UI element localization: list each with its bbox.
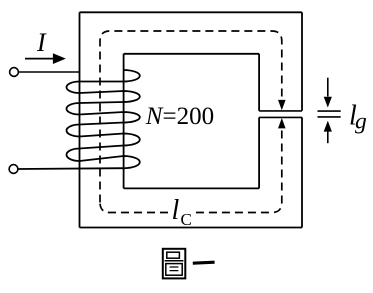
svg-text:g: g	[355, 109, 367, 135]
flux arrow into gap (down)	[278, 100, 286, 110]
bottom terminal	[9, 165, 18, 174]
svg-text:N=200: N=200	[145, 103, 214, 130]
svg-text:C: C	[181, 210, 192, 229]
coil N=200 winding	[18, 70, 140, 169]
top lead wire	[19, 71, 80, 73]
flux arrow into gap (up)	[278, 118, 286, 128]
gap dimension tick marks	[318, 111, 341, 117]
caption 圖一 (drawn)	[163, 249, 215, 279]
current direction arrow	[25, 53, 66, 64]
air gap cap lines	[259, 111, 302, 118]
mean path dashed rounded rectangle lC	[100, 31, 282, 213]
svg-text:I: I	[36, 28, 47, 57]
core outer rectangle	[80, 12, 303, 227]
core inner rectangle (window)	[124, 54, 260, 189]
top terminal	[10, 68, 19, 77]
dimension arrow down (lg)	[324, 78, 332, 108]
label lg (air-gap length)	[349, 101, 367, 135]
svg-text:l: l	[172, 195, 180, 226]
label lC (mean core path length)	[172, 195, 192, 229]
dimension arrow up (lg)	[324, 121, 332, 143]
